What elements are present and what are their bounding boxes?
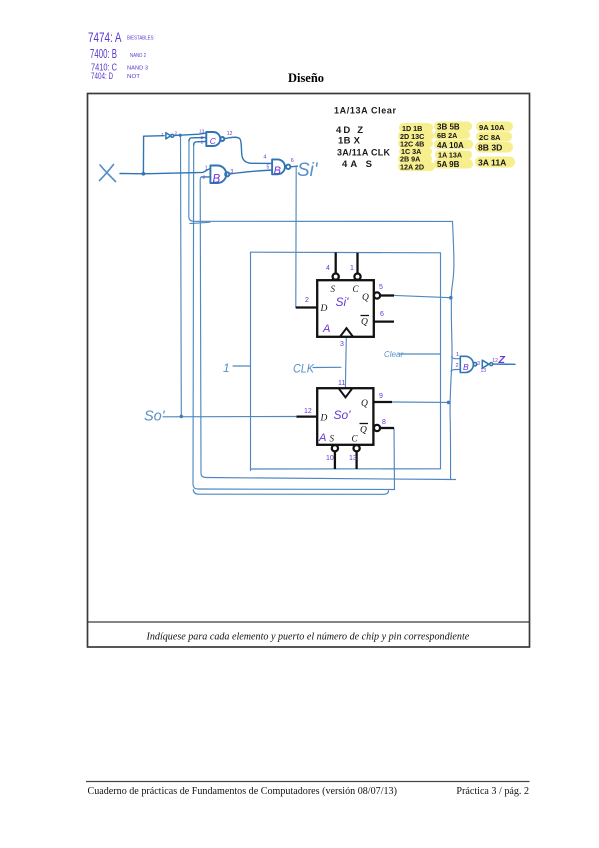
svg-text:B: B	[213, 174, 221, 186]
svg-text:A: A	[322, 323, 330, 335]
svg-text:1A 13A: 1A 13A	[438, 151, 462, 160]
svg-text:So': So'	[144, 409, 166, 425]
svg-text:9A 10A: 9A 10A	[479, 123, 505, 132]
svg-text:C: C	[352, 434, 359, 444]
svg-text:3A 11A: 3A 11A	[478, 158, 506, 168]
svg-text:So': So'	[334, 408, 352, 422]
svg-text:3A/11A CLK: 3A/11A CLK	[337, 148, 391, 158]
svg-text:Z: Z	[498, 354, 506, 366]
svg-text:13: 13	[199, 128, 205, 134]
svg-text:6B 2A: 6B 2A	[437, 131, 457, 140]
svg-text:Q: Q	[361, 318, 368, 328]
svg-text:2: 2	[203, 174, 206, 180]
svg-text:NAND 3: NAND 3	[127, 66, 148, 72]
svg-text:4D Z: 4D Z	[336, 125, 363, 136]
svg-text:12: 12	[227, 131, 233, 137]
svg-text:5: 5	[379, 284, 383, 291]
svg-text:8B 3D: 8B 3D	[478, 143, 502, 153]
svg-text:C: C	[210, 136, 217, 146]
svg-text:1: 1	[201, 140, 204, 146]
svg-text:8: 8	[382, 419, 386, 426]
svg-text:1A/13A Clear: 1A/13A Clear	[334, 105, 396, 115]
svg-text:3: 3	[477, 361, 480, 367]
svg-text:S: S	[330, 434, 335, 444]
svg-text:12: 12	[304, 408, 312, 415]
svg-text:4: 4	[263, 155, 266, 161]
svg-text:6: 6	[291, 158, 294, 164]
svg-text:1: 1	[456, 352, 459, 358]
svg-text:5A 9B: 5A 9B	[437, 160, 460, 169]
svg-text:B: B	[463, 362, 469, 372]
svg-text:B: B	[274, 165, 281, 177]
svg-text:6: 6	[380, 311, 384, 318]
svg-text:Si': Si'	[336, 295, 350, 309]
svg-text:Indíquese para cada elemento y: Indíquese para cada elemento y puerto el…	[146, 632, 470, 643]
svg-text:3: 3	[230, 169, 233, 175]
svg-text:1B X: 1B X	[338, 136, 361, 147]
svg-text:11: 11	[338, 380, 345, 387]
svg-text:12A 2D: 12A 2D	[400, 163, 424, 172]
svg-text:7474: A: 7474: A	[88, 29, 122, 45]
svg-text:13: 13	[349, 455, 357, 462]
svg-text:BIESTABLES: BIESTABLES	[127, 36, 154, 42]
svg-text:Diseño: Diseño	[288, 71, 324, 85]
svg-text:1: 1	[205, 166, 208, 172]
svg-text:D: D	[320, 414, 328, 424]
svg-text:D: D	[320, 304, 328, 314]
svg-text:2C 8A: 2C 8A	[479, 133, 501, 142]
svg-text:CLK: CLK	[293, 364, 315, 376]
svg-text:12: 12	[492, 358, 498, 364]
svg-text:A: A	[318, 432, 326, 444]
svg-text:2: 2	[305, 297, 309, 304]
svg-text:10: 10	[326, 455, 334, 462]
svg-text:2: 2	[175, 131, 178, 137]
svg-text:3: 3	[340, 341, 344, 348]
svg-text:Q: Q	[361, 399, 368, 409]
svg-text:S: S	[331, 284, 336, 294]
svg-text:1: 1	[350, 265, 354, 272]
svg-text:4: 4	[326, 265, 330, 272]
svg-text:Cuaderno de prácticas de Funda: Cuaderno de prácticas de Fundamentos de …	[88, 786, 397, 797]
svg-text:NOT: NOT	[127, 74, 141, 80]
svg-text:13: 13	[481, 368, 487, 374]
svg-text:Si': Si'	[297, 160, 319, 181]
svg-text:7404: D: 7404: D	[91, 71, 113, 81]
svg-text:4A 10A: 4A 10A	[437, 141, 464, 150]
svg-text:NAND 2: NAND 2	[130, 53, 146, 59]
svg-text:4A S: 4A S	[342, 159, 372, 170]
svg-text:Q: Q	[362, 293, 369, 303]
svg-text:Clear: Clear	[384, 350, 403, 359]
svg-text:5: 5	[267, 165, 270, 171]
svg-text:Q: Q	[360, 426, 367, 436]
svg-text:Práctica 3 / pág. 2: Práctica 3 / pág. 2	[456, 786, 529, 797]
svg-text:C: C	[353, 284, 360, 294]
svg-text:9: 9	[379, 393, 383, 400]
svg-text:7400: B: 7400: B	[90, 47, 117, 61]
svg-text:1: 1	[161, 132, 164, 138]
svg-text:1: 1	[223, 361, 230, 375]
svg-text:2: 2	[456, 363, 459, 369]
